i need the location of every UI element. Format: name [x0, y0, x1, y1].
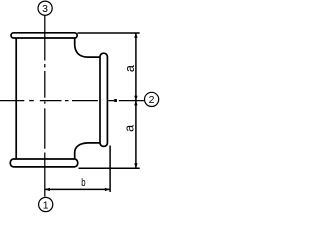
arrowheads dimension a [134, 33, 137, 168]
arrowhead a upper-middle (points down to centerline) [134, 96, 137, 101]
tee body outline [10, 33, 107, 167]
node 1 (callout circle bottom) [39, 197, 53, 211]
arrowhead a lower-middle (points up to centerline) [134, 101, 137, 106]
dimension line b (horizontal) [45, 188, 110, 190]
arrowhead a top (points up) [134, 33, 137, 38]
top bead band [11, 33, 77, 38]
body right edge top + fillet + branch top edge [75, 38, 100, 57]
bottom bead band [10, 159, 77, 167]
svg-text:b: b [81, 176, 85, 189]
right bead band [100, 53, 107, 146]
arrowhead a bottom (points down) [134, 163, 137, 168]
wire: horizontal centerline of branch [0, 100, 144, 102]
arrowhead b left (points left) [45, 188, 50, 191]
extension line right (for dimension b) [109, 146, 111, 193]
arrowheads dimension b [45, 188, 110, 191]
body left edge [15, 38, 17, 159]
dimension line a (vertical) [135, 33, 137, 168]
svg-text:a: a [122, 125, 136, 132]
body right edge bottom + fillet + branch bottom edge [75, 143, 100, 159]
svg-text:3: 3 [42, 3, 48, 15]
node 3 (callout circle top) [38, 1, 52, 15]
svg-text:a: a [123, 65, 137, 72]
arrowhead b right (points right) [105, 188, 110, 191]
wire: vertical centerline of run [44, 16, 46, 197]
extension line top (for dimension a) [78, 32, 140, 34]
junction dot on branch centerline [114, 99, 117, 102]
svg-text:2: 2 [149, 94, 155, 106]
extension line bottom (for dimension a) [79, 167, 140, 169]
node 2 (callout circle right) [145, 92, 159, 106]
svg-text:1: 1 [43, 199, 49, 211]
